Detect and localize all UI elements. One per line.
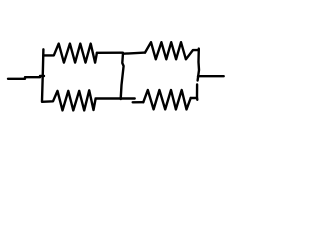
resistor R1 (top-left) [43,44,97,63]
resistor R4 (bottom-right) [143,90,190,109]
wire R4 to right node [191,97,197,99]
wire R3 to middle node [96,97,135,99]
node right junction bus wire (lower) [196,85,199,100]
wire R1 to middle node [97,52,123,54]
resistor R3 (bottom-left) [42,90,96,110]
wire right lead [198,75,224,77]
node right junction bus wire (upper) [198,49,199,81]
node left junction bus wire [42,49,43,101]
resistor R2 (top-right) [145,42,199,59]
wire middle node to R2 [124,53,146,54]
node middle junction bus wire [121,53,124,99]
wire left lead [8,76,44,79]
wire jog before R4 [133,101,144,104]
